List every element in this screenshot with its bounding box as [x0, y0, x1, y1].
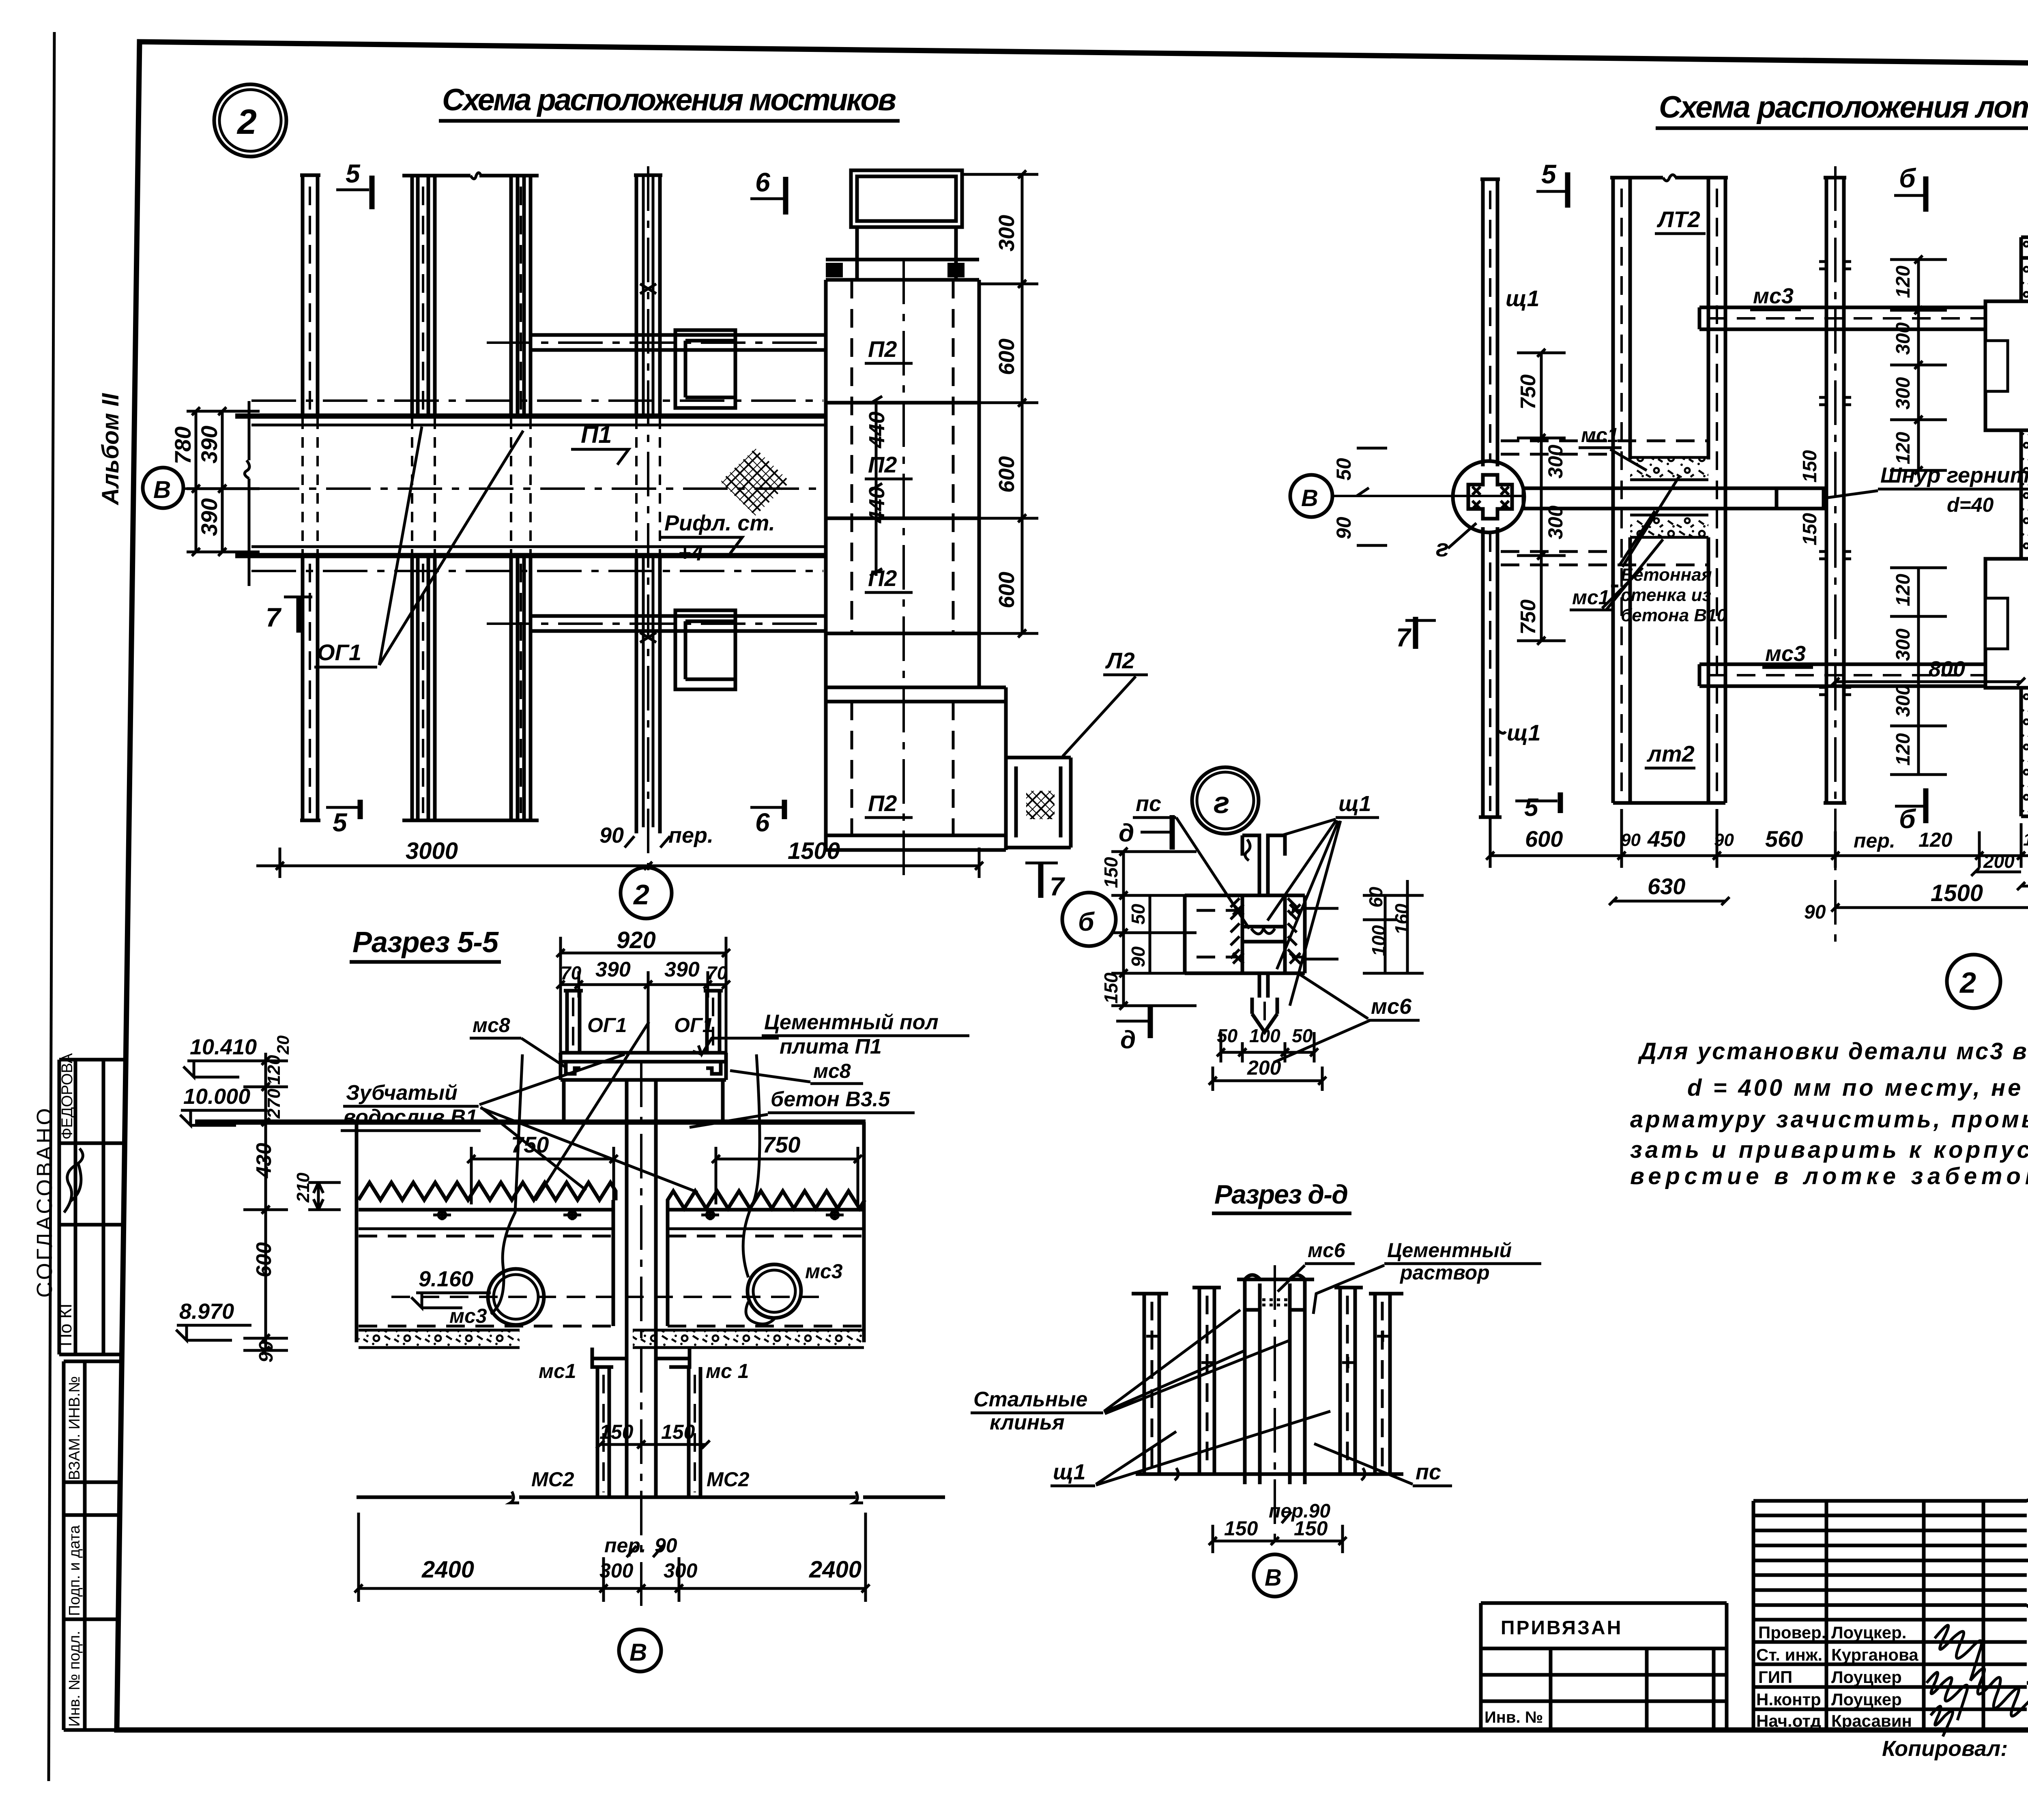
circle node 2 top-left [214, 84, 286, 157]
pipe axis [391, 1296, 823, 1298]
base hatched strip right [633, 1330, 864, 1348]
svg-text:щ1: щ1 [1507, 720, 1541, 745]
svg-text:МС2: МС2 [531, 1468, 574, 1491]
stamp table B [64, 1361, 120, 1730]
svg-text:150: 150 [1799, 450, 1821, 483]
walkway plate with мс8 channels [561, 1053, 726, 1080]
top hatched band [2021, 237, 2028, 258]
svg-text:Н.контр: Н.контр [1756, 1690, 1821, 1709]
svg-text:Стальные: Стальные [973, 1388, 1087, 1411]
joint symbols on center wall [1819, 262, 1851, 695]
node circle 2 bottom [621, 867, 672, 919]
svg-text:390: 390 [595, 958, 631, 981]
ladder detail L2 [1006, 758, 1071, 848]
svg-text:Лоуцкер: Лоуцкер [1831, 1690, 1902, 1709]
svg-text:3000: 3000 [406, 838, 458, 864]
svg-text:Схема расположения мостиков: Схема расположения мостиков [442, 83, 896, 117]
svg-text:ПРИВЯЗАН: ПРИВЯЗАН [1501, 1617, 1622, 1639]
svg-text:90: 90 [1621, 830, 1641, 850]
bottom dim row 3 [1831, 868, 2028, 916]
svg-text:800: 800 [1929, 657, 1965, 681]
мс1 bracket left [592, 1348, 627, 1367]
svg-text:верстие в лотке забетониро: верстие в лотке забетонировать. [1630, 1163, 2028, 1189]
svg-text:пер.: пер. [1854, 829, 1895, 852]
svg-text:150: 150 [1100, 972, 1121, 1004]
svg-text:мс6: мс6 [1371, 994, 1412, 1019]
wall fin D center pair [634, 175, 662, 833]
svg-text:щ1: щ1 [1338, 792, 1371, 816]
svg-text:780: 780 [170, 427, 195, 464]
svg-text:120: 120 [1918, 828, 1953, 851]
svg-text:90: 90 [1128, 946, 1149, 967]
mortar bed dots [1262, 1300, 1287, 1305]
svg-text:390: 390 [196, 426, 222, 464]
svg-text:390: 390 [664, 958, 700, 981]
dim 150 50 90 150 left [1111, 852, 1197, 1006]
svg-text:пер.: пер. [604, 1534, 646, 1557]
svg-text:10.000: 10.000 [183, 1084, 250, 1109]
svg-text:300: 300 [599, 1559, 634, 1582]
pipe circle right [748, 1264, 801, 1318]
svg-text:5: 5 [1524, 794, 1539, 822]
dim chain upper middle [1890, 260, 1947, 470]
svg-text:150: 150 [1100, 857, 1121, 888]
svg-text:д: д [1120, 1026, 1136, 1054]
svg-text:б: б [1899, 804, 1916, 834]
SECTION: note paragraph [1630, 1038, 2028, 1189]
svg-text:150: 150 [1294, 1517, 1328, 1540]
svg-text:200: 200 [1983, 851, 2015, 872]
slab second line and dashed [359, 1228, 864, 1230]
svg-text:750: 750 [1517, 599, 1540, 635]
lower arm sleeve [675, 610, 735, 689]
SECTION: title block [1481, 1500, 2028, 1762]
svg-text:мс8: мс8 [813, 1060, 851, 1082]
riffled steel hatch diamond [720, 448, 790, 516]
center dash axis [1274, 1265, 1276, 1541]
svg-text:По КГ: По КГ [56, 1298, 75, 1346]
svg-text:600: 600 [1525, 826, 1563, 852]
svg-text:50: 50 [1292, 1025, 1313, 1046]
svg-text:зать и приварить к корпусу: зать и приварить к корпусу трубы мс3. По… [1630, 1137, 2028, 1163]
panels structure [1144, 1279, 1390, 1484]
svg-text:2: 2 [236, 103, 257, 142]
svg-text:560: 560 [1765, 826, 1803, 852]
svg-text:90: 90 [1332, 517, 1355, 539]
walkway centerline [183, 487, 826, 490]
svg-text:В: В [153, 476, 171, 503]
svg-text:50: 50 [1128, 904, 1149, 925]
svg-text:920: 920 [617, 927, 656, 953]
svg-text:50: 50 [1217, 1025, 1238, 1046]
svg-text:Для установки детали мс3 в: Для установки детали мс3 в лотке ЛТ2 вып… [1637, 1038, 2028, 1065]
svg-text:150: 150 [599, 1421, 634, 1443]
svg-text:120: 120 [1893, 574, 1914, 606]
node circle В bottom [619, 1629, 661, 1672]
node circle В [1254, 1554, 1296, 1597]
wall vertical of node [1242, 835, 1285, 998]
cross marks on panels [1146, 1331, 1388, 1368]
svg-text:+4: +4 [678, 541, 703, 565]
svg-text:50: 50 [1332, 458, 1355, 481]
svg-text:300: 300 [995, 215, 1019, 251]
svg-text:750: 750 [763, 1132, 800, 1157]
svg-text:б: б [1078, 907, 1095, 936]
svg-text:150: 150 [1799, 513, 1821, 545]
tank right wall [862, 1122, 866, 1342]
dim 70 390 390 70 [556, 971, 730, 1054]
svg-text:7: 7 [1050, 872, 1066, 901]
SECTION: left drawing - scheme of walkways [143, 159, 1148, 919]
lower connecting arm [531, 616, 826, 631]
svg-text:мс8: мс8 [473, 1014, 510, 1037]
stack body [826, 280, 979, 633]
svg-text:СОГЛАСОВАНО: СОГЛАСОВАНО [32, 1106, 57, 1298]
channel bottom [2021, 815, 2028, 818]
svg-text:160: 160 [1391, 904, 1412, 935]
svg-text:Ст. инж.: Ст. инж. [1756, 1645, 1822, 1664]
svg-text:мс6: мс6 [1308, 1239, 1346, 1262]
svg-text:Лоуцкер.: Лоуцкер. [1831, 1623, 1906, 1642]
svg-text:5: 5 [1541, 159, 1557, 189]
hidden line мс1 lower [1501, 552, 1708, 565]
lifting loops [433, 1210, 844, 1220]
svg-text:Л2: Л2 [1105, 648, 1135, 673]
svg-text:300: 300 [1893, 377, 1914, 410]
dim 920 [556, 937, 730, 1053]
svg-text:150: 150 [661, 1421, 695, 1443]
pointer lines fan [479, 1022, 698, 1200]
bottom dim row 2 [1609, 897, 1729, 905]
svg-text:210: 210 [293, 1172, 313, 1203]
svg-text:20: 20 [273, 1035, 292, 1055]
svg-text:2400: 2400 [421, 1556, 474, 1583]
svg-text:Нач.отд: Нач.отд [1756, 1711, 1821, 1730]
svg-text:120: 120 [2023, 830, 2028, 850]
main right header row [2027, 1500, 2028, 1730]
SECTION: detail node Г (plan of joint) [1062, 767, 1424, 1091]
signatures scrawl [1927, 1625, 2028, 1736]
svg-text:5: 5 [333, 808, 348, 837]
svg-text:90: 90 [1714, 830, 1734, 850]
svg-text:Подп. и дата: Подп. и дата [66, 1525, 83, 1616]
svg-text:Инв. № подл.: Инв. № подл. [66, 1631, 83, 1727]
svg-text:450: 450 [1647, 826, 1685, 852]
svg-text:d = 400 мм по месту, не на: d = 400 мм по месту, не нарушая арматуры… [1687, 1075, 2028, 1101]
svg-text:г: г [1214, 786, 1230, 820]
concrete fill in tray [1630, 457, 1708, 480]
SECTION: left stamp column [32, 393, 124, 1730]
svg-text:2400: 2400 [809, 1556, 861, 1583]
tray ЛТ2 walls [1610, 178, 1728, 803]
svg-text:В: В [629, 1639, 647, 1666]
svg-text:60: 60 [1365, 886, 1386, 908]
svg-text:300: 300 [1893, 322, 1914, 355]
dim 780 390 390 bracket [187, 411, 260, 552]
dim chain lower middle [1890, 568, 1947, 775]
floor top line [195, 1120, 866, 1125]
svg-text:8.970: 8.970 [179, 1299, 234, 1324]
svg-text:Цементный пол: Цементный пол [764, 1011, 939, 1034]
svg-text:ОГ1: ОГ1 [317, 640, 361, 665]
panel dashed lines [1152, 1296, 1382, 1468]
svg-text:П2: П2 [868, 452, 897, 477]
svg-text:390: 390 [196, 498, 222, 536]
stack top box [851, 170, 962, 280]
svg-text:120: 120 [1893, 733, 1914, 766]
leg мс2 right [689, 1367, 700, 1497]
weld marks [1231, 898, 1297, 958]
upper arm sleeve [675, 330, 735, 408]
stack dividers [826, 403, 979, 633]
svg-text:Красавин: Красавин [1831, 1711, 1912, 1730]
central pipe through Щ1 [1523, 488, 1824, 509]
leg мс2 left [597, 1367, 609, 1497]
wall fin B caps [402, 176, 539, 820]
svg-text:100: 100 [1368, 925, 1389, 956]
SECTION: Razrez д-д drawing [971, 1179, 1541, 1597]
svg-text:300: 300 [1893, 629, 1914, 661]
svg-text:100: 100 [1249, 1025, 1280, 1046]
svg-text:9.160: 9.160 [419, 1267, 473, 1291]
grid circle В [1290, 475, 1332, 517]
dim 50 100 50 bottom [1221, 1032, 1314, 1062]
node inner detail [1242, 927, 1285, 942]
stamp table A [59, 1060, 124, 1354]
svg-text:водослив В1: водослив В1 [343, 1105, 477, 1129]
stack lower piece [826, 687, 1006, 850]
lower pipe мс3 [1699, 664, 2028, 686]
svg-text:Зубчатый: Зубчатый [346, 1081, 458, 1105]
svg-text:мс3: мс3 [449, 1305, 487, 1327]
svg-text:бетона В10: бетона В10 [1621, 605, 1727, 625]
svg-text:стенка из: стенка из [1621, 585, 1711, 605]
svg-text:120: 120 [264, 1055, 284, 1085]
svg-text:мс 1: мс 1 [706, 1360, 749, 1382]
svg-text:600: 600 [995, 456, 1019, 493]
dim 2400 300 300 2400 [359, 1513, 866, 1602]
svg-text:пер.: пер. [668, 823, 713, 848]
svg-text:120: 120 [1893, 266, 1914, 298]
stack lower transition [826, 633, 979, 850]
svg-text:120: 120 [1893, 432, 1914, 464]
grid circle В [143, 468, 183, 508]
stack cap band [826, 260, 979, 280]
svg-text:5: 5 [346, 159, 361, 188]
svg-text:90: 90 [256, 1341, 277, 1363]
svg-text:Курганова: Курганова [1831, 1645, 1918, 1664]
svg-text:б: б [1899, 163, 1916, 193]
svg-text:200: 200 [1247, 1056, 1281, 1079]
wall fin B left face [412, 176, 435, 820]
top caps [1132, 1275, 1403, 1310]
svg-text:600: 600 [252, 1242, 276, 1277]
zigzag teeth left [359, 1183, 616, 1200]
detail circle Г [1192, 767, 1259, 834]
svg-text:6: 6 [755, 167, 771, 197]
svg-text:7: 7 [1396, 623, 1412, 652]
svg-text:Бетонная: Бетонная [1621, 565, 1712, 585]
extension line with break [245, 401, 249, 586]
svg-text:Инв. №: Инв. № [1484, 1708, 1543, 1726]
joint symbols on fin D [640, 284, 656, 642]
svg-text:бетон В3.5: бетон В3.5 [771, 1088, 890, 1111]
svg-text:арматуру зачистить, промыть: арматуру зачистить, промыть водой под да… [1630, 1106, 2028, 1133]
svg-text:ОГ1: ОГ1 [674, 1014, 713, 1037]
svg-text:мс1: мс1 [539, 1360, 576, 1382]
railing post ОГ1 right [704, 991, 723, 1053]
pipe horizontal of node [1185, 895, 1305, 973]
svg-text:В: В [1301, 485, 1318, 511]
dim chain left 750 300 300 750 [1517, 353, 1566, 641]
concrete block under plate [564, 1080, 723, 1122]
svg-text:1500: 1500 [788, 838, 840, 864]
axis dash-dot below band [251, 570, 823, 572]
lower notch box [1985, 559, 2028, 688]
svg-text:630: 630 [1648, 874, 1685, 899]
right dim chain of stack [962, 174, 1038, 633]
svg-text:7: 7 [266, 602, 282, 632]
svg-text:мс3: мс3 [805, 1260, 843, 1283]
upper notch box [1985, 301, 2028, 430]
svg-text:10.410: 10.410 [190, 1035, 257, 1059]
dim 60 100 160 right [1363, 880, 1424, 973]
paper edge left [49, 32, 54, 1781]
svg-text:300: 300 [1544, 444, 1567, 479]
svg-text:щ1: щ1 [1053, 1460, 1086, 1484]
stem bottom [1252, 998, 1277, 1032]
hidden line мс1 upper [1501, 441, 1708, 454]
svg-text:пс: пс [1416, 1460, 1441, 1484]
svg-text:Провер.: Провер. [1758, 1623, 1826, 1642]
bottom dim row 1 [1490, 854, 2028, 857]
svg-text:6: 6 [755, 808, 770, 837]
svg-text:лт2: лт2 [1646, 741, 1695, 766]
svg-text:ЛТ2: ЛТ2 [1656, 206, 1700, 232]
svg-text:мс1: мс1 [1581, 424, 1619, 446]
dim 750 750 [467, 1147, 862, 1204]
bottom dimension 3000 1500 [256, 848, 979, 878]
svg-text:Схема расположения лотков: Схема расположения лотков [1659, 90, 2028, 124]
svg-text:мс3: мс3 [1765, 642, 1806, 666]
мс1 bracket right [656, 1348, 690, 1367]
svg-text:d=40: d=40 [1947, 494, 1994, 516]
svg-text:430: 430 [252, 1143, 276, 1178]
pointer lines ОГ1 [379, 427, 523, 665]
svg-text:70: 70 [707, 962, 728, 983]
tank left wall [355, 1122, 359, 1342]
center joint channel [627, 1080, 656, 1497]
base hatched strip left [359, 1330, 520, 1348]
svg-text:П2: П2 [868, 790, 897, 816]
svg-text:600: 600 [995, 572, 1019, 608]
SECTION: Razrez 5-5 drawing [176, 926, 969, 1672]
svg-text:2: 2 [633, 879, 649, 910]
dim 800 800 [1831, 678, 2025, 686]
slab top below teeth [359, 1200, 864, 1326]
railing post ОГ1 left [564, 991, 583, 1053]
walkway band inner lines [251, 425, 826, 547]
svg-text:Копировал:: Копировал: [1882, 1736, 2008, 1761]
SECTION: sheet titles [214, 83, 2028, 157]
dim 150 150 [1209, 1525, 1347, 1553]
bottom break [1136, 1472, 1403, 1476]
node circle 2 [1947, 955, 2000, 1008]
svg-text:300: 300 [1893, 685, 1914, 717]
svg-text:Разрез д-д: Разрез д-д [1214, 1179, 1348, 1209]
channel left wall hatched [2021, 258, 2028, 816]
ground line [357, 1496, 945, 1499]
svg-text:мс3: мс3 [1753, 284, 1794, 308]
wall fin A pair [300, 175, 320, 820]
wall fin B right face [511, 176, 531, 820]
dim 200 [1209, 1067, 1326, 1091]
svg-text:П2: П2 [868, 336, 897, 362]
upper connecting arm [531, 335, 826, 350]
svg-text:клинья: клинья [990, 1411, 1065, 1434]
svg-text:ГИП: ГИП [1758, 1668, 1792, 1687]
pipe circle left [488, 1269, 544, 1325]
svg-text:270: 270 [264, 1088, 284, 1119]
center wall пер [1824, 178, 1846, 803]
zigzag teeth right [668, 1191, 865, 1208]
svg-text:г: г [1436, 534, 1449, 562]
svg-text:90: 90 [1804, 901, 1826, 923]
svg-text:МС2: МС2 [707, 1468, 750, 1491]
svg-text:Цементный: Цементный [1387, 1239, 1512, 1262]
walkway band P1 bottom edge [235, 553, 826, 558]
svg-text:300: 300 [664, 1559, 698, 1582]
hidden fin lines in band [303, 419, 660, 553]
svg-text:ФЕДОРОВА: ФЕДОРОВА [59, 1053, 76, 1140]
pодписи table grid [1753, 1501, 2027, 1730]
svg-text:В: В [1265, 1565, 1282, 1591]
left dim chain ticks [243, 1053, 288, 1350]
svg-text:1500: 1500 [1931, 880, 1983, 906]
upper pipe мс3 [1699, 307, 2028, 329]
dim 150 150 [596, 1440, 710, 1449]
svg-text:д: д [1119, 819, 1134, 847]
svg-text:Разрез 5-5: Разрез 5-5 [352, 926, 499, 959]
walkway band P1 top edge [235, 414, 826, 419]
svg-text:П1: П1 [581, 421, 612, 448]
svg-text:750: 750 [1517, 374, 1540, 410]
svg-text:плита П1: плита П1 [780, 1035, 882, 1058]
svg-text:90: 90 [599, 823, 624, 848]
svg-text:2: 2 [1959, 967, 1976, 999]
SECTION: right drawing - scheme of trays [1290, 143, 2028, 1008]
svg-text:щ1: щ1 [1506, 285, 1540, 311]
svg-text:Альбом II: Альбом II [97, 393, 124, 506]
svg-text:150: 150 [1224, 1517, 1258, 1540]
svg-text:пс: пс [1136, 792, 1161, 816]
svg-text:ВЗАМ. ИНВ.№: ВЗАМ. ИНВ.№ [66, 1376, 83, 1480]
detail circle Б [1062, 893, 1116, 946]
svg-text:Лоуцкер: Лоуцкер [1831, 1668, 1902, 1687]
svg-text:70: 70 [561, 962, 582, 983]
svg-text:600: 600 [995, 339, 1019, 375]
svg-text:Шнур гернита: Шнур гернита [1880, 463, 2028, 487]
wall Щ1 [1479, 179, 1502, 817]
slab bottom dashes [359, 1325, 864, 1328]
ПРИВЯЗАН table [1481, 1603, 1727, 1730]
svg-text:ОГ1: ОГ1 [587, 1014, 627, 1037]
svg-text:Рифл. ст.: Рифл. ст. [664, 511, 775, 535]
svg-text:300: 300 [1544, 505, 1567, 539]
signature squiggle [64, 1148, 83, 1213]
node Г assembly circle [1453, 461, 1524, 532]
axis dash-dot above band [251, 399, 823, 402]
